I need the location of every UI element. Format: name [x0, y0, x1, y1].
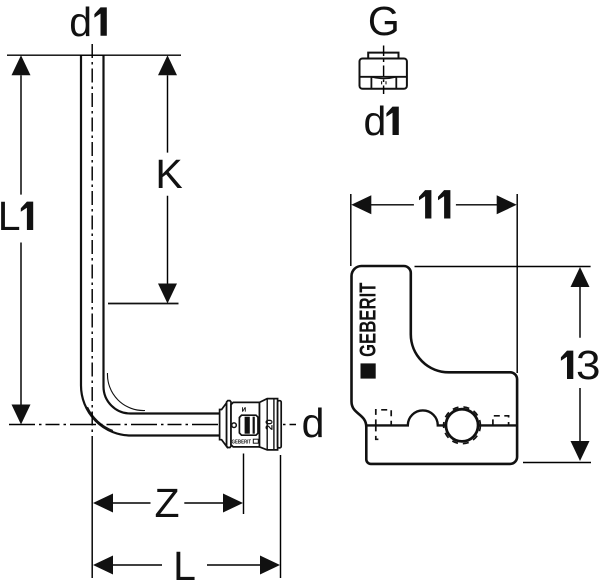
union nut middle dip	[371, 77, 396, 79]
union nut center notch	[382, 81, 386, 84]
K bottom extension line	[108, 303, 179, 305]
union nut segment line left	[370, 77, 372, 89]
dimension 11 line	[371, 204, 497, 206]
L1 arrow up	[12, 55, 31, 75]
K arrow down	[158, 284, 177, 304]
svg-text:K: K	[155, 151, 182, 197]
union nut top tab	[368, 53, 398, 59]
press fitting end cap	[278, 401, 282, 448]
L right extension line	[280, 455, 282, 578]
L1 arrow down	[12, 405, 31, 425]
L arrow right	[260, 556, 280, 575]
label 13	[561, 351, 573, 379]
label 11	[419, 190, 431, 218]
dimension 13 line	[579, 287, 581, 442]
fitting indicator window	[239, 415, 258, 435]
dimension L1 line	[20, 75, 22, 404]
Z arrow left	[93, 494, 113, 513]
tiny print square	[253, 439, 258, 443]
dashed pocket right	[493, 416, 509, 426]
svg-text:GEBERIT: GEBERIT	[232, 440, 252, 446]
press fitting sleeve taper	[260, 399, 278, 450]
union nut inner line	[360, 76, 407, 78]
dashed pocket left lower	[376, 425, 383, 439]
union nut body	[360, 59, 407, 89]
GEBERIT logo square	[361, 363, 376, 378]
press fitting ring	[227, 401, 231, 448]
svg-text:L: L	[173, 543, 196, 584]
dimension 13 extension bottom	[523, 462, 591, 464]
svg-text:L: L	[0, 193, 21, 239]
K arrow up	[158, 55, 177, 75]
press fitting body	[231, 402, 260, 447]
svg-text:d: d	[364, 98, 387, 144]
dimension K line	[167, 75, 169, 283]
pipe bend outline (L-shaped tube)	[81, 55, 220, 435]
Z arrow right	[223, 494, 243, 513]
bend highlight arc outer	[88, 407, 114, 431]
union nut icon centerline	[383, 46, 385, 95]
svg-text:Z: Z	[154, 480, 179, 526]
bend highlight arc inner	[107, 373, 145, 411]
sleeve band line 2	[273, 399, 275, 450]
block parting line with bump and circle	[366, 410, 517, 425]
top extension line	[7, 54, 181, 56]
dimension 13 extension top	[415, 266, 591, 268]
13 arrow down	[571, 441, 590, 461]
clamp circle	[446, 409, 478, 441]
dimension 11 extension right	[516, 194, 518, 373]
mounting block outline	[352, 266, 518, 464]
window rib dark bar 1	[245, 417, 250, 434]
dimension 11 extension left	[350, 194, 352, 266]
Z right extension line	[243, 454, 245, 515]
svg-text:GEBERIT: GEBERIT	[355, 283, 381, 358]
svg-text:d: d	[69, 0, 92, 45]
sleeve band line 1	[266, 399, 268, 450]
dimension Z line	[113, 502, 224, 504]
svg-text:d: d	[302, 400, 325, 446]
press fitting collar	[220, 403, 227, 447]
dashed circle	[444, 407, 481, 444]
svg-text:3: 3	[576, 342, 601, 388]
tiny top marking	[243, 407, 246, 411]
13 arrow up	[571, 267, 590, 287]
vertical extension line below tube axis	[91, 440, 93, 578]
window rib dark bar 2	[253, 417, 255, 434]
11 arrow right	[497, 195, 517, 214]
union nut segment line right	[395, 77, 397, 89]
dimension L line	[113, 564, 261, 566]
svg-text:20: 20	[264, 419, 276, 430]
horizontal centerline of outlet	[9, 424, 296, 426]
vertical centerline of tube	[91, 44, 93, 440]
witness hole dot	[232, 423, 237, 428]
11 arrow left	[351, 195, 371, 214]
svg-text:G: G	[368, 0, 400, 44]
L arrow left	[93, 556, 113, 575]
dashed pocket left	[376, 410, 391, 426]
